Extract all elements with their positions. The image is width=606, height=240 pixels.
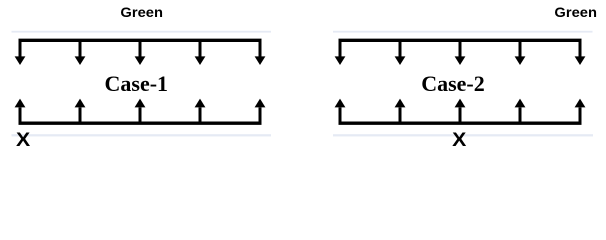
- up arrow 3 (Case-1): [135, 99, 146, 124]
- light rule behind right X label: [333, 134, 593, 136]
- up arrow 2 (Case-2): [395, 99, 406, 124]
- light rule behind left X label: [12, 134, 272, 136]
- svg-text:Green: Green: [554, 4, 597, 20]
- up arrow 4 (Case-2): [515, 99, 526, 124]
- up arrow 4 (Case-1): [195, 99, 206, 124]
- down arrow 5 (Case-2): [575, 39, 586, 65]
- down arrow 5 (Case-1): [255, 39, 266, 65]
- svg-text:Case-2: Case-2: [421, 71, 485, 96]
- down arrow 3 (Case-2): [455, 39, 466, 65]
- svg-text:X: X: [452, 129, 466, 151]
- down arrow 2 (Case-1): [75, 39, 86, 65]
- light rule under right Green label: [333, 31, 593, 33]
- up arrow 5 (Case-2): [575, 99, 586, 124]
- top beam Case-2: [339, 39, 582, 42]
- down arrow 2 (Case-2): [395, 39, 406, 65]
- down arrow 4 (Case-2): [515, 39, 526, 65]
- svg-text:X: X: [16, 129, 30, 151]
- up arrow 3 (Case-2): [455, 99, 466, 124]
- down arrow 3 (Case-1): [135, 39, 146, 65]
- light rule under left Green label: [12, 31, 272, 33]
- bottom beam Case-1: [19, 121, 262, 124]
- down arrow 4 (Case-1): [195, 39, 206, 65]
- svg-text:Case-1: Case-1: [105, 71, 169, 96]
- bottom beam Case-2: [339, 121, 582, 124]
- svg-text:Green: Green: [120, 4, 163, 20]
- down arrow 1 (Case-1): [15, 39, 26, 65]
- up arrow 5 (Case-1): [255, 99, 266, 124]
- up arrow 1 (Case-1): [15, 99, 26, 124]
- down arrow 1 (Case-2): [335, 39, 346, 65]
- up arrow 2 (Case-1): [75, 99, 86, 124]
- top beam Case-1: [19, 39, 262, 42]
- up arrow 1 (Case-2): [335, 99, 346, 124]
